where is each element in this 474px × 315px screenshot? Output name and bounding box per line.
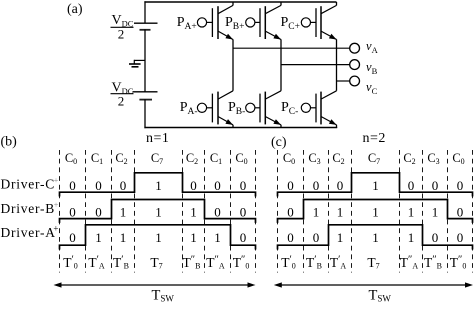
svg-text:(a): (a) (67, 2, 83, 17)
svg-text:0: 0 (287, 205, 294, 220)
dashed grid line c4 (399, 150, 401, 273)
dashed grid line b7 (255, 150, 257, 273)
battery V2 VDC/2 lower: short plate (139, 99, 152, 101)
wire: phase C leg / output node (336, 39, 338, 90)
terminal vC (350, 76, 360, 86)
terminal vB (350, 60, 360, 70)
svg-text:1: 1 (313, 205, 320, 220)
svg-text:0: 0 (120, 178, 127, 193)
svg-text:T′B: T′B (113, 255, 129, 271)
wire: phase C collector stub to top rail (336, 2, 338, 5)
svg-text:+: + (54, 176, 59, 185)
waveform Driver-A (b) (60, 225, 256, 250)
wire: output line vC (337, 80, 350, 82)
svg-text:0: 0 (95, 205, 102, 220)
svg-text:PC-: PC- (281, 100, 298, 117)
svg-text:C3: C3 (308, 151, 320, 166)
svg-text:1: 1 (155, 230, 162, 245)
svg-text:T″B: T″B (424, 255, 442, 271)
svg-text:C2: C2 (403, 151, 415, 166)
values Driver-A (c): 0 0 1 1 1 0 0 (287, 230, 463, 245)
svg-text:1: 1 (408, 230, 415, 245)
battery V1 VDC/2 upper: long plate (134, 22, 158, 24)
svg-text:PB-: PB- (228, 100, 245, 117)
svg-text:0: 0 (240, 178, 247, 193)
svg-text:1: 1 (372, 230, 379, 245)
wire: phase B collector stub to top rail (280, 2, 282, 5)
svg-text:2: 2 (118, 27, 125, 42)
wire: left bus bottom segment (144, 99, 146, 128)
svg-text:T′B: T′B (306, 255, 322, 271)
svg-text:0: 0 (214, 178, 221, 193)
svg-text:T″0: T″0 (233, 255, 250, 271)
svg-text:0: 0 (240, 230, 247, 245)
svg-text:PC+: PC+ (281, 15, 301, 32)
svg-text:0: 0 (190, 178, 197, 193)
svg-text:1: 1 (95, 230, 102, 245)
wire: phase B leg / output node (280, 39, 282, 90)
svg-text:T7: T7 (150, 255, 162, 271)
svg-text:C2: C2 (186, 151, 198, 166)
svg-text:0: 0 (313, 178, 320, 193)
svg-text:1: 1 (120, 205, 127, 220)
svg-text:+: + (54, 201, 59, 210)
svg-text:1: 1 (432, 205, 439, 220)
svg-text:C7: C7 (368, 151, 380, 166)
svg-text:1: 1 (214, 230, 221, 245)
transistor PA- (IGBT) (197, 103, 206, 112)
svg-text:C0: C0 (235, 151, 247, 166)
svg-text:T″A: T″A (206, 255, 225, 271)
svg-text:Driver-A: Driver-A (1, 225, 56, 240)
svg-text:T″0: T″0 (450, 255, 467, 271)
transistor PC+ (IGBT) (301, 18, 310, 27)
svg-text:C7: C7 (151, 151, 163, 166)
svg-text:0: 0 (432, 230, 439, 245)
dashed grid line c3 (351, 150, 353, 273)
Tsw span arrow (b) (60, 284, 250, 286)
svg-text:n=1: n=1 (146, 131, 169, 146)
wire: phase C emitter stub to bottom rail (336, 125, 338, 128)
svg-text:0: 0 (432, 178, 439, 193)
svg-text:PB+: PB+ (225, 15, 245, 32)
svg-text:0: 0 (287, 178, 294, 193)
dashed grid line c6 (447, 150, 449, 273)
svg-text:C1: C1 (91, 151, 103, 166)
svg-text:vC: vC (366, 80, 378, 96)
terminal vA (350, 43, 360, 53)
svg-text:T′A: T′A (88, 255, 105, 271)
svg-text:1: 1 (120, 230, 127, 245)
svg-text:C0: C0 (65, 151, 77, 166)
svg-text:1: 1 (337, 205, 344, 220)
svg-text:Driver-C: Driver-C (1, 177, 55, 192)
svg-text:PA-: PA- (180, 100, 198, 117)
svg-text:T″B: T″B (183, 255, 201, 271)
transistor PA+ (IGBT) (197, 18, 206, 27)
wire: left bus top segment (144, 1, 146, 23)
dashed grid line c0 (277, 150, 279, 273)
svg-text:0: 0 (69, 230, 76, 245)
svg-text:1: 1 (337, 230, 344, 245)
svg-text:1: 1 (372, 178, 379, 193)
svg-text:Driver-B: Driver-B (1, 201, 55, 216)
dashed grid line c5 (422, 150, 424, 273)
svg-text:0: 0 (337, 178, 344, 193)
svg-text:PA+: PA+ (177, 15, 197, 32)
transistor PC- (IGBT) (301, 103, 310, 112)
dashed grid line b2 (111, 150, 113, 273)
waveform Driver-B (b) (60, 200, 256, 223)
transistor PB- (IGBT) (246, 103, 255, 112)
waveform Driver-C (b) (60, 173, 256, 197)
wire: left bus mid segment (144, 29, 146, 91)
svg-text:TSW: TSW (369, 287, 392, 303)
svg-text:T7: T7 (367, 255, 379, 271)
dashed grid line b3 (134, 150, 136, 273)
waveform Driver-C (c) (278, 173, 473, 197)
waveform Driver-B (c) (278, 200, 473, 223)
dashed grid line b5 (204, 150, 206, 273)
values Driver-C (c): 0 0 0 1 0 0 0 (287, 178, 463, 193)
svg-text:vA: vA (366, 39, 379, 55)
svg-text:T′0: T′0 (63, 255, 78, 271)
wire: output line vB (281, 64, 350, 66)
svg-text:TSW: TSW (152, 287, 175, 303)
dashed grid line c2 (328, 150, 330, 273)
svg-text:0: 0 (69, 178, 76, 193)
svg-text:T′0: T′0 (281, 255, 296, 271)
dashed grid line b4 (182, 150, 184, 273)
values Driver-C (b): 0 0 0 1 0 0 0 (69, 178, 246, 193)
wire: phase B emitter stub to bottom rail (280, 125, 282, 128)
svg-text:vB: vB (366, 60, 378, 76)
wire: output line vA (233, 47, 350, 49)
svg-text:+: + (53, 224, 58, 234)
waveform Driver-A (c) (278, 225, 473, 250)
svg-text:0: 0 (240, 205, 247, 220)
svg-text:1: 1 (155, 178, 162, 193)
dashed grid line c7 (472, 150, 474, 273)
svg-text:(b): (b) (1, 135, 18, 150)
dashed grid line b1 (85, 150, 87, 273)
svg-text:0: 0 (457, 230, 464, 245)
values Driver-A (b): 0 1 1 1 1 1 0 (69, 230, 246, 245)
wire: phase A leg / output node (232, 39, 234, 90)
svg-text:C3: C3 (427, 151, 439, 166)
dashed grid line b0 (59, 150, 61, 273)
Tsw span arrow (c) (280, 284, 467, 286)
bottom DC bus rail (144, 127, 337, 129)
svg-text:C2: C2 (332, 151, 344, 166)
svg-text:0: 0 (457, 205, 464, 220)
values Driver-B (b): 0 0 1 1 1 0 0 (69, 205, 246, 220)
svg-text:1: 1 (372, 205, 379, 220)
svg-text:2: 2 (118, 93, 125, 108)
wire: phase A collector stub to top rail (232, 2, 234, 5)
svg-text:1: 1 (408, 205, 415, 220)
svg-text:T″A: T″A (400, 255, 419, 271)
battery V1 VDC/2 upper: short plate (140, 29, 151, 31)
wire: phase A emitter stub to bottom rail (232, 125, 234, 128)
svg-text:0: 0 (69, 205, 76, 220)
svg-text:1: 1 (155, 205, 162, 220)
battery V2 VDC/2 lower: long plate (133, 91, 158, 93)
svg-text:1: 1 (190, 205, 197, 220)
svg-text:0: 0 (313, 230, 320, 245)
svg-text:0: 0 (287, 230, 294, 245)
svg-text:0: 0 (408, 178, 415, 193)
values Driver-B (c): 0 1 1 1 1 1 0 (287, 205, 463, 220)
transistor PB+ (IGBT) (246, 18, 255, 27)
svg-text:C1: C1 (210, 151, 222, 166)
dashed grid line b6 (230, 150, 232, 273)
ground symbol (129, 60, 145, 67)
svg-text:C0: C0 (283, 151, 295, 166)
svg-text:0: 0 (214, 205, 221, 220)
svg-text:C2: C2 (115, 151, 127, 166)
svg-text:T′A: T′A (330, 255, 347, 271)
svg-text:1: 1 (190, 230, 197, 245)
top DC bus rail (144, 1, 336, 3)
dashed grid line c1 (303, 150, 305, 273)
svg-text:C0: C0 (452, 151, 464, 166)
svg-text:n=2: n=2 (363, 131, 386, 146)
svg-text:0: 0 (95, 178, 102, 193)
svg-text:0: 0 (457, 178, 464, 193)
svg-text:(c): (c) (271, 135, 287, 150)
